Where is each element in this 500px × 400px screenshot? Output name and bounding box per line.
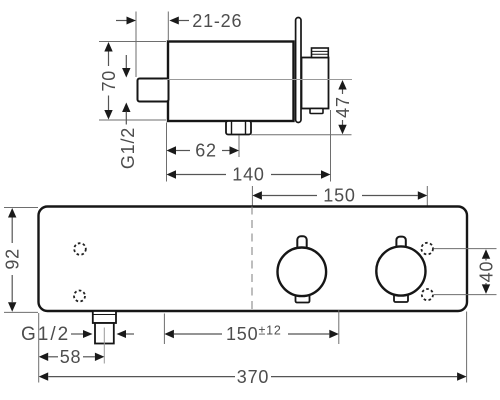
dimension 150 top extension lines [252,186,427,228]
dimension 150 top [252,186,427,206]
dimension 370 extension lines [39,312,467,383]
svg-text:G1/2: G1/2 [21,324,70,345]
svg-text:140: 140 [232,165,264,185]
dimension 62 [167,141,240,161]
front view: mixer body [39,207,468,312]
svg-text:58: 58 [60,347,82,367]
side view: G1/2 hose connection block [138,79,169,102]
svg-text:62: 62 [195,141,217,161]
front view: center dashed line [251,207,253,312]
side view: wall escutcheon plate [296,18,301,123]
side view: mixer body [168,42,294,122]
side view: handle upper ridged cap [312,48,329,58]
front view: right screw holes [421,243,433,300]
side view: bottom outlet union nut [226,121,251,135]
dimension 62 extension lines [167,123,240,182]
dimension 40 extension lines [434,249,497,295]
svg-text:47: 47 [333,96,353,118]
front view: bottom outlet nut [93,311,116,323]
front view: outlet center line [103,328,105,364]
side view: handle lower tab [310,109,323,114]
dimension 140 extension line [330,110,332,182]
G1/2 side label with leader arrows [118,55,138,169]
dimension 58 [39,347,105,367]
G1/2 front label with leader arrows [21,324,134,345]
front view: middle knob [278,236,327,302]
svg-text:370: 370 [237,367,269,387]
side view: valve axis center line [163,79,352,81]
dimension 21-26 extension lines [136,12,168,78]
svg-text:70: 70 [99,70,119,92]
side view: outlet bottom extension line [251,134,352,136]
svg-text:150: 150 [323,186,355,206]
dimension 47 [333,80,353,134]
svg-text:G1/2: G1/2 [118,127,138,169]
svg-text:92: 92 [3,248,23,270]
svg-text:21-26: 21-26 [192,11,242,31]
dimension 92 [3,208,23,312]
dimension 21-26 [116,11,242,31]
front view: bottom outlet pipe [95,323,114,344]
svg-text:40: 40 [476,261,496,283]
dimension 92 extension lines [4,208,38,313]
side view: handle main body [302,58,329,109]
dimension 70 extension lines [99,42,166,121]
dimension 70 [99,42,119,120]
dimension 140 [167,165,331,185]
front view: right knob [376,237,425,302]
dimension 40 [476,249,496,294]
dimension 150±12 extension lines [164,310,338,344]
dimension 150±12 [164,324,338,345]
dimension 370 [39,367,467,387]
front view: left screw holes [74,243,86,301]
